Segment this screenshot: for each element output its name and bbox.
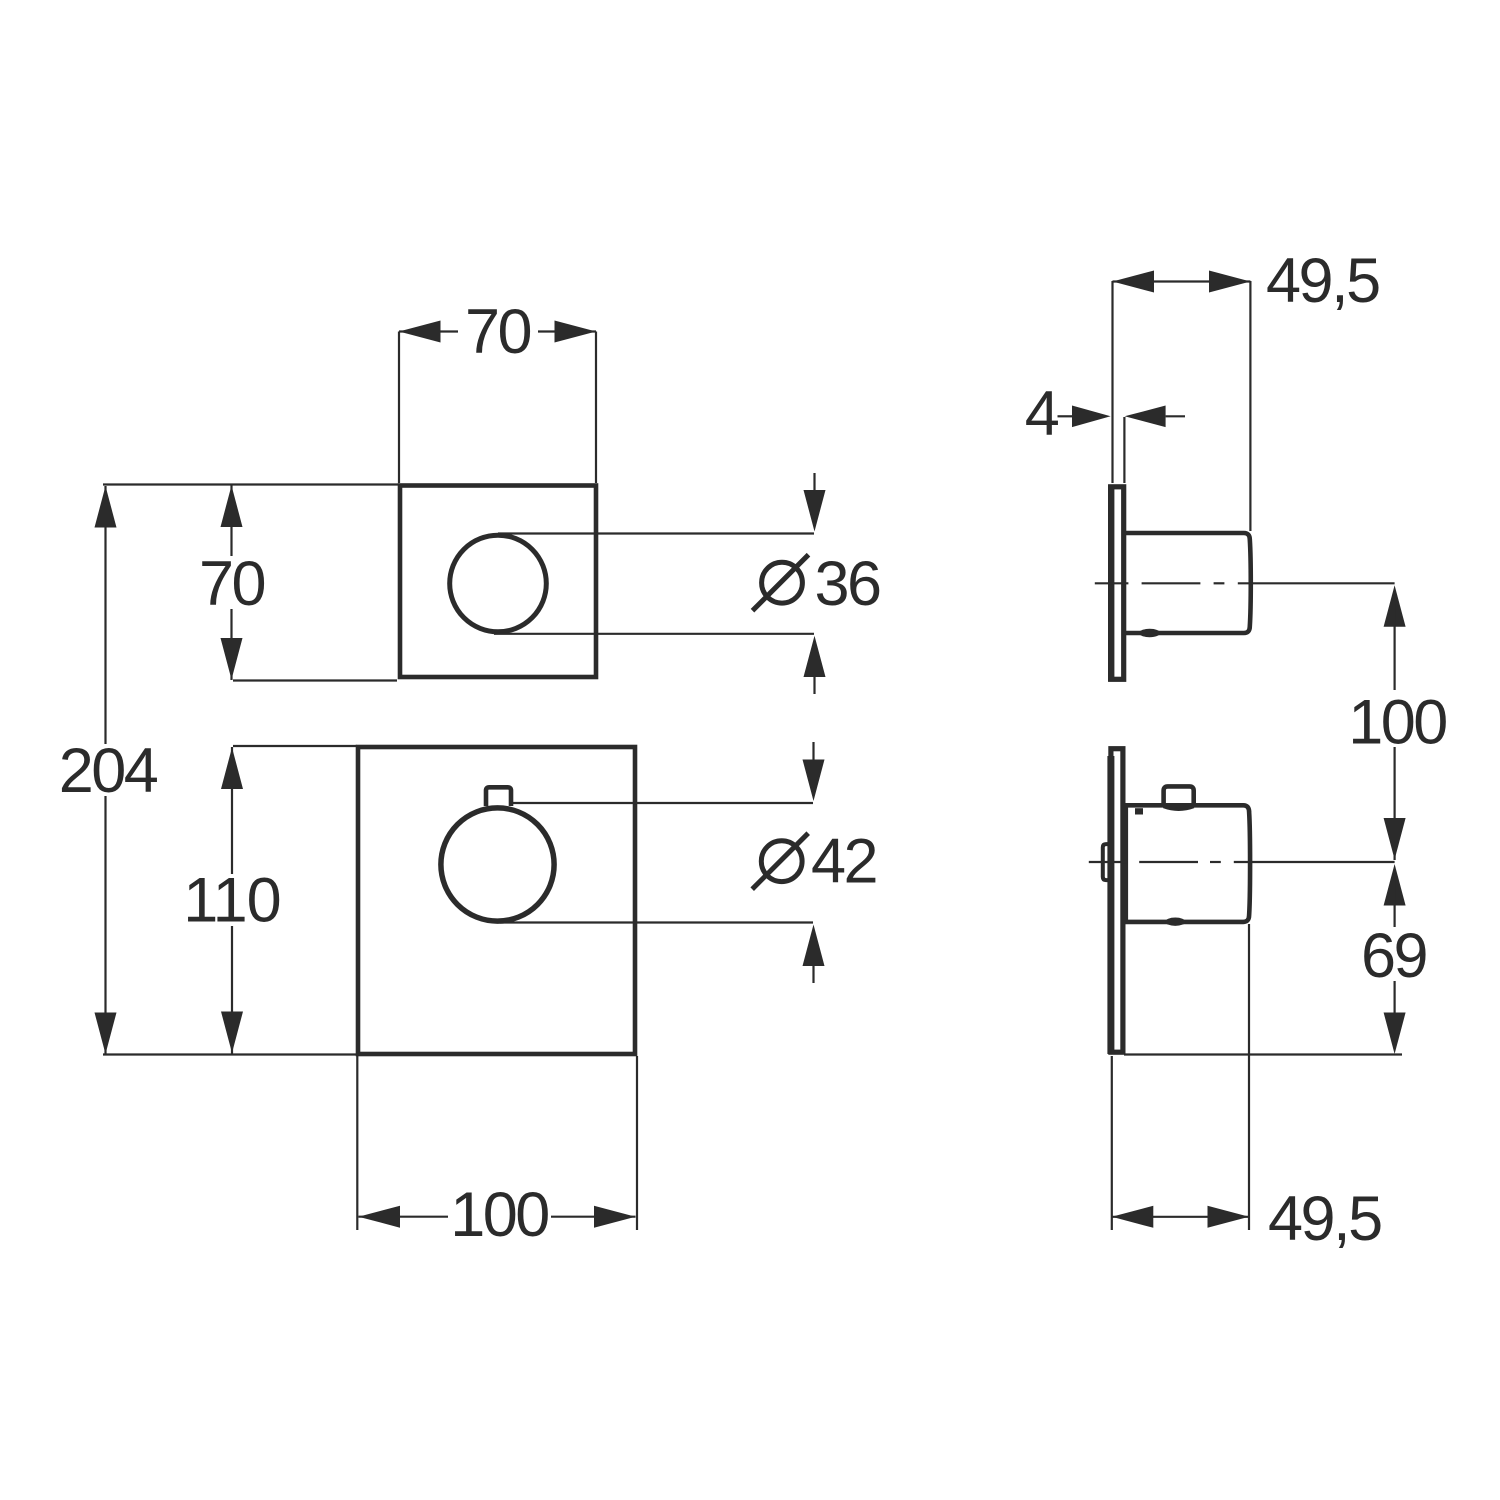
dim D36 lower arrow (804, 636, 826, 694)
tab dip arc on knob top (1164, 807, 1194, 810)
svg-text:100: 100 (450, 1180, 548, 1250)
svg-text:36: 36 (815, 549, 881, 619)
extension line y1054.5 bottom (103, 1053, 358, 1055)
dim 4 left arrow (1058, 406, 1111, 428)
front view top plate 70x70 (400, 486, 596, 678)
extension line 49.5 top right (1249, 281, 1251, 531)
tiny screw square detail (1135, 808, 1143, 814)
dim line 69 right vertical (1384, 864, 1406, 1054)
lens detail on knob bottom top view (1139, 629, 1160, 637)
dim D42 upper arrow (803, 742, 825, 801)
leader line D36 top tangent (498, 532, 814, 534)
tab on knob side bottom (1164, 786, 1194, 806)
dim line 110 vertical (221, 747, 243, 1054)
knob circle D42 (441, 808, 554, 921)
extension line 49.5 bottom left (1111, 1056, 1113, 1230)
knob circle D36 (450, 535, 547, 632)
dim D36 upper arrow (804, 473, 826, 532)
lens detail on knob bottom side view (1165, 918, 1185, 926)
dim line 70 left vertical (221, 485, 243, 680)
svg-text:4: 4 (1025, 379, 1059, 449)
knob side bottom outline (1126, 805, 1250, 922)
svg-text:70: 70 (465, 297, 531, 367)
center line bottom view (1089, 861, 1395, 863)
flange plate side top (1111, 485, 1124, 682)
dim D42 lower arrow (803, 925, 825, 984)
extension line top for dim 70 width left (398, 332, 400, 484)
extension line 49.5 top left (1111, 281, 1113, 483)
diameter symbol D36 (753, 555, 809, 611)
dim line 70 top (399, 321, 596, 343)
extension line y680 bottom of small square (233, 679, 397, 681)
tab notch on knob D42 (486, 787, 511, 806)
svg-text:69: 69 (1361, 921, 1427, 991)
leader line D36 bottom tangent (494, 633, 814, 635)
extension line for dim 4 (1123, 417, 1125, 483)
clip detail left of flange (1103, 844, 1109, 880)
extension line 49.5 bottom right (1248, 924, 1250, 1230)
extension line y484 from 204 line to top square (103, 483, 399, 485)
leader line D42 top (512, 802, 813, 804)
svg-text:49,5: 49,5 (1266, 246, 1379, 316)
front view bottom plate 100x110 (358, 747, 635, 1054)
extension line top for dim 70 width right (595, 332, 597, 484)
dim line 204 vertical (95, 486, 117, 1054)
extension line 100 bottom left (356, 1056, 358, 1230)
svg-text:204: 204 (59, 736, 158, 806)
svg-text:110: 110 (183, 866, 280, 936)
extension line y746 top of big square (233, 745, 357, 747)
extension line bottom side view y1054.5 (1124, 1053, 1402, 1055)
center line top view (1095, 582, 1395, 584)
svg-text:100: 100 (1348, 688, 1446, 758)
extension line 100 bottom right (636, 1056, 638, 1230)
diameter symbol D42 (752, 833, 808, 889)
text halo boxes (56, 303, 1450, 1240)
flange plate side bottom (1111, 749, 1123, 1054)
svg-text:42: 42 (811, 827, 876, 897)
dim line 100 right vertical (1384, 585, 1406, 860)
dim line 49.5 bottom (1112, 1206, 1249, 1228)
svg-text:70: 70 (199, 549, 265, 619)
leader line D42 bottom (500, 921, 813, 923)
dim line 100 bottom (359, 1206, 636, 1228)
knob side top outline (1125, 533, 1251, 633)
dim 4 right arrow (1125, 406, 1185, 428)
svg-text:49,5: 49,5 (1268, 1184, 1381, 1254)
dim line 49.5 top (1113, 271, 1251, 293)
